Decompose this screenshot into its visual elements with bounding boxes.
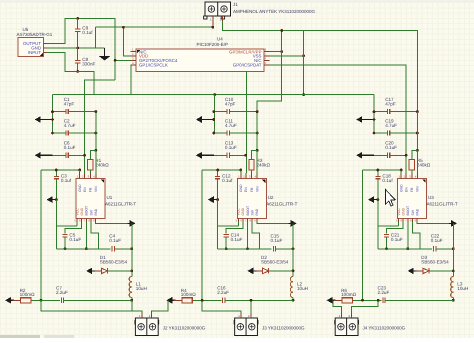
node out off-page	[5, 297, 14, 304]
wire	[92, 270, 101, 272]
connector J4	[335, 318, 406, 336]
J2 pin 1	[141, 314, 143, 318]
junction	[452, 270, 455, 273]
wire	[387, 222, 404, 234]
U3 bottom pin 9	[416, 219, 418, 222]
wire	[77, 63, 79, 71]
wire	[95, 150, 97, 173]
U2 bottom pin 6	[242, 219, 244, 222]
node gnd off-page	[356, 152, 374, 159]
junction	[55, 169, 58, 172]
U4 pin 6	[264, 59, 269, 61]
junction	[361, 299, 364, 302]
junction	[212, 110, 215, 113]
capacitor C3	[54, 173, 72, 183]
wire	[229, 132, 257, 134]
wire	[213, 119, 215, 121]
junction	[114, 59, 117, 62]
svg-text:VCC: VCC	[397, 208, 401, 216]
wire	[85, 80, 116, 173]
svg-text:10uH: 10uH	[136, 286, 147, 291]
wire	[52, 95, 54, 133]
capacitor C2	[64, 118, 76, 135]
junction	[55, 198, 58, 201]
wire	[373, 95, 375, 133]
junction	[373, 118, 376, 121]
wire	[77, 48, 79, 61]
wire	[256, 150, 258, 173]
wire	[53, 132, 67, 134]
U2 bottom pin 5	[237, 219, 239, 222]
node gnd off-page	[35, 116, 53, 123]
inductor L2	[290, 277, 308, 298]
svg-text:100mΩ: 100mΩ	[341, 292, 356, 297]
wire	[374, 132, 388, 134]
wire	[363, 169, 402, 171]
wire	[214, 154, 227, 156]
J2 pin 2	[151, 314, 153, 318]
U1 bottom pin 6	[81, 219, 83, 222]
svg-text:4.7uF: 4.7uF	[64, 123, 76, 128]
diode D1	[100, 255, 128, 274]
capacitor C16	[217, 286, 229, 303]
J1 pin 1	[212, 16, 214, 27]
wire	[64, 237, 66, 249]
wire	[130, 65, 133, 95]
svg-text:100mΩ: 100mΩ	[20, 292, 35, 297]
capacitor C23	[378, 286, 390, 303]
wire	[47, 47, 105, 49]
wire	[192, 299, 221, 301]
wire	[214, 95, 216, 133]
junction	[256, 110, 259, 113]
wire	[257, 31, 282, 112]
svg-text:VIN: VIN	[255, 186, 259, 192]
svg-text:0.1uF: 0.1uF	[69, 237, 81, 242]
node gnd off-page	[208, 196, 217, 203]
wire	[64, 299, 132, 301]
svg-text:0.1uf: 0.1uf	[82, 30, 93, 35]
U2 top pin 1	[240, 173, 242, 178]
wire	[333, 300, 342, 314]
wire	[13, 299, 21, 301]
wire	[353, 299, 382, 301]
U1 top pin 4	[95, 173, 97, 178]
svg-text:GP1/ICSPCLK: GP1/ICSPCLK	[139, 63, 168, 68]
wire	[55, 170, 57, 176]
node SW off-page	[128, 220, 136, 227]
capacitor C18	[375, 173, 393, 183]
wire	[174, 299, 182, 301]
svg-text:4.7uF: 4.7uF	[385, 123, 397, 128]
capacitor C12	[215, 173, 233, 183]
U3 top pin 2	[405, 173, 407, 178]
junction	[76, 17, 79, 20]
junction	[405, 154, 408, 157]
wire	[107, 270, 131, 272]
junction	[377, 169, 380, 172]
junction	[212, 132, 215, 135]
U4 pin 8	[264, 51, 269, 53]
junction	[239, 169, 242, 172]
junction	[292, 270, 295, 273]
svg-text:GND: GND	[399, 184, 403, 192]
U4 pin 2	[131, 55, 136, 57]
wire	[94, 27, 96, 48]
wire	[292, 223, 294, 276]
wire	[131, 223, 133, 276]
wire	[414, 270, 423, 272]
wire	[217, 179, 219, 200]
svg-text:330nF: 330nF	[82, 62, 95, 67]
svg-text:A6211GLJTR-T: A6211GLJTR-T	[105, 201, 136, 206]
wire	[41, 169, 80, 171]
svg-text:SW: SW	[411, 209, 415, 215]
wire	[40, 170, 42, 300]
wire	[229, 111, 257, 113]
wire	[76, 222, 78, 227]
regulator U5	[17, 27, 53, 57]
wire	[270, 55, 304, 57]
resistor R5	[409, 158, 431, 170]
svg-text:2.2uF: 2.2uF	[56, 290, 68, 295]
junction	[361, 299, 364, 302]
junction	[452, 247, 455, 250]
U3 bottom pin 7	[407, 219, 409, 222]
LED driver U1	[75, 179, 136, 219]
wire	[77, 18, 79, 29]
wire	[225, 299, 293, 301]
LED driver U2	[237, 179, 298, 219]
junction	[302, 93, 305, 96]
wire	[79, 170, 81, 173]
wire	[390, 111, 418, 113]
junction	[292, 299, 295, 302]
junction	[400, 169, 403, 172]
svg-text:BOOT: BOOT	[406, 206, 410, 216]
junction	[250, 299, 253, 302]
U2 bottom pin 8	[251, 219, 253, 222]
wire	[417, 222, 453, 224]
junction	[212, 118, 215, 121]
U4 pin 5	[264, 64, 269, 66]
wire	[377, 179, 379, 200]
junction	[416, 132, 419, 135]
wire	[131, 298, 133, 301]
capacitor C17	[385, 97, 396, 114]
J3 pin 1	[240, 314, 242, 318]
node gnd off-page	[368, 196, 377, 203]
wire	[223, 22, 418, 112]
svg-text:SB560-E3/54: SB560-E3/54	[421, 259, 449, 264]
wire	[416, 112, 418, 151]
junction	[373, 132, 376, 135]
junction	[244, 154, 247, 157]
svg-text:A6211GLJTR-T: A6211GLJTR-T	[266, 201, 297, 206]
wire	[202, 300, 241, 314]
svg-text:J4 YK31102000000G: J4 YK31102000000G	[363, 325, 406, 330]
wire	[390, 154, 406, 156]
wire	[411, 170, 413, 173]
junction	[246, 247, 249, 250]
wire	[374, 154, 387, 156]
wire	[226, 222, 243, 234]
wire	[123, 27, 130, 56]
svg-text:GND: GND	[402, 207, 406, 215]
wire	[269, 270, 293, 272]
junction	[302, 54, 305, 57]
junction	[76, 70, 79, 73]
wire	[386, 237, 388, 249]
U5 pin OUTPUT	[44, 43, 47, 45]
svg-text:U2: U2	[268, 195, 274, 200]
junction	[130, 247, 133, 250]
svg-text:10uH: 10uH	[297, 286, 308, 291]
wire	[41, 300, 142, 314]
svg-text:0.1uf: 0.1uf	[61, 178, 72, 183]
junction	[406, 247, 409, 250]
wire	[398, 222, 400, 227]
wire	[413, 222, 420, 249]
svg-text:2.2uF: 2.2uF	[217, 290, 229, 295]
wire	[55, 200, 57, 249]
wire	[55, 179, 57, 200]
wire	[251, 170, 253, 173]
wire	[303, 31, 305, 95]
svg-text:10uH: 10uH	[457, 286, 468, 291]
U3 bottom pin 8	[412, 219, 414, 222]
node gnd off-page	[196, 152, 214, 159]
junction	[51, 110, 54, 113]
capacitor C22	[431, 234, 443, 252]
svg-text:SW: SW	[251, 209, 255, 215]
wire	[378, 225, 399, 227]
U2 bottom pin 9	[256, 219, 258, 222]
svg-text:AMPHENOL ANYTEK YK31102000000G: AMPHENOL ANYTEK YK31102000000G	[233, 9, 315, 14]
wire	[362, 170, 364, 300]
capacitor C15	[271, 234, 283, 252]
inductor L1	[129, 277, 147, 298]
U3 bottom pin 6	[402, 219, 404, 222]
wire	[56, 248, 110, 250]
capacitor C8	[75, 57, 95, 67]
U3 top pin 3	[411, 173, 413, 178]
svg-text:0.1uF: 0.1uF	[225, 145, 237, 150]
svg-text:240kΩ: 240kΩ	[95, 162, 109, 167]
svg-text:240kΩ: 240kΩ	[257, 162, 271, 167]
capacitor C10	[225, 97, 236, 114]
junction	[85, 247, 88, 250]
resistor R4	[181, 288, 196, 303]
wire	[352, 300, 379, 314]
svg-text:GND: GND	[241, 207, 245, 215]
wire	[53, 94, 375, 96]
wire	[131, 300, 133, 311]
svg-text:J1: J1	[233, 2, 238, 7]
diode D2	[261, 255, 289, 274]
wire	[270, 65, 407, 173]
wire	[252, 222, 259, 249]
U5 pin GND	[44, 47, 47, 49]
junction	[280, 29, 283, 32]
node gnd off-page	[47, 196, 56, 203]
node SW off-page	[449, 220, 457, 227]
wire	[334, 299, 342, 301]
junction	[452, 299, 455, 302]
junction	[201, 299, 204, 302]
wire	[56, 225, 77, 227]
wire	[225, 237, 227, 249]
junction	[122, 26, 125, 29]
junction	[216, 169, 219, 172]
wire	[257, 222, 293, 224]
capacitor C14	[224, 233, 243, 243]
junction	[95, 110, 98, 113]
wire	[253, 270, 262, 272]
wire	[390, 132, 418, 134]
U4 pin 3	[131, 59, 136, 61]
svg-text:AS7305ADTR-G1: AS7305ADTR-G1	[17, 32, 53, 37]
capacitor C9	[75, 26, 93, 36]
node gnd off-page	[247, 268, 256, 275]
svg-text:4.7uF: 4.7uF	[225, 123, 237, 128]
svg-text:PAD: PAD	[94, 208, 98, 215]
junction	[201, 299, 204, 302]
junction	[256, 132, 259, 135]
wire	[77, 31, 79, 47]
LED driver U3	[397, 179, 458, 219]
U3 top pin 1	[400, 173, 402, 178]
junction	[256, 110, 259, 113]
wire	[53, 154, 66, 156]
wire	[214, 111, 228, 113]
U2 top pin 2	[245, 173, 247, 178]
capacitor C11	[225, 118, 237, 135]
svg-text:FB: FB	[410, 187, 414, 192]
svg-text:INPUT: INPUT	[28, 50, 41, 55]
U3 bottom pin 5	[398, 219, 400, 222]
svg-text:U3: U3	[428, 195, 434, 200]
svg-text:0.1uf: 0.1uf	[222, 178, 233, 183]
svg-text:VIN: VIN	[416, 186, 420, 192]
svg-text:47pF: 47pF	[64, 102, 75, 107]
wire	[377, 170, 379, 176]
svg-text:SB560-E3/54: SB560-E3/54	[100, 259, 128, 264]
wire	[91, 222, 98, 249]
wire	[217, 170, 219, 176]
wire	[90, 150, 96, 159]
junction	[292, 247, 295, 250]
svg-text:0.1uF: 0.1uF	[391, 237, 403, 242]
wire	[95, 112, 97, 151]
U4 pin 7	[264, 55, 269, 57]
connector J1	[204, 2, 316, 19]
J4 pin 2	[351, 314, 353, 318]
U1 bottom pin 9	[95, 219, 97, 222]
svg-text:VIN: VIN	[94, 186, 98, 192]
junction	[377, 198, 380, 201]
svg-text:0.1uF: 0.1uF	[271, 238, 283, 243]
svg-text:0.1uF: 0.1uF	[385, 145, 397, 150]
wire	[385, 299, 453, 301]
wire	[429, 270, 453, 272]
wire	[68, 132, 96, 134]
capacitor C1	[64, 97, 75, 114]
svg-text:A6211GLJTR-T: A6211GLJTR-T	[427, 201, 458, 206]
diode D3	[421, 255, 449, 274]
svg-text:SB560-E3/54: SB560-E3/54	[261, 259, 289, 264]
node gnd off-page	[408, 268, 417, 275]
svg-text:47pF: 47pF	[225, 102, 236, 107]
capacitor C7	[56, 286, 68, 303]
U1 bottom pin 8	[90, 219, 92, 222]
resistor R6	[341, 288, 356, 303]
wire	[270, 51, 282, 53]
junction	[95, 132, 98, 135]
wire	[152, 300, 168, 314]
U2 bottom pin 7	[247, 219, 249, 222]
svg-text:PAD: PAD	[255, 208, 259, 215]
svg-text:BOOT: BOOT	[246, 206, 250, 216]
node out off-page	[166, 297, 175, 304]
node out off-page	[327, 297, 336, 304]
capacitor C4	[109, 234, 121, 252]
wire	[96, 222, 132, 224]
wire	[47, 18, 116, 79]
node SW off-page	[289, 220, 297, 227]
J4 pin 1	[341, 314, 343, 318]
connector J3	[234, 318, 305, 336]
wire	[114, 248, 131, 250]
wire	[85, 222, 87, 249]
junction	[78, 169, 81, 172]
svg-text:0.1uf: 0.1uf	[382, 178, 393, 183]
wire	[202, 169, 241, 171]
J3 pin 2	[250, 314, 252, 318]
inductor L3	[451, 277, 469, 298]
svg-text:BOOT: BOOT	[85, 206, 89, 216]
U1 top pin 3	[89, 173, 91, 178]
U1 top pin 2	[84, 173, 86, 178]
capacitor C6	[64, 141, 76, 158]
svg-text:J2 YK31102000000G: J2 YK31102000000G	[163, 325, 206, 330]
junction	[40, 299, 43, 302]
wire	[218, 225, 239, 227]
node gnd off-page	[35, 152, 53, 159]
wire	[68, 154, 84, 156]
svg-text:240kΩ: 240kΩ	[417, 162, 431, 167]
svg-text:VCC: VCC	[237, 208, 241, 216]
wire	[214, 132, 228, 134]
junction	[416, 110, 419, 113]
U3 top pin 4	[416, 173, 418, 178]
capacitor C20	[385, 141, 397, 158]
svg-text:47pF: 47pF	[385, 102, 396, 107]
wire	[237, 222, 239, 227]
wire	[115, 59, 131, 61]
wire	[53, 111, 67, 113]
resistor R1	[88, 158, 110, 170]
svg-text:U1: U1	[107, 195, 113, 200]
junction	[95, 149, 98, 152]
svg-text:EN: EN	[404, 187, 408, 192]
wire	[201, 170, 203, 300]
junction	[377, 299, 380, 302]
wire	[377, 200, 379, 249]
wire	[292, 298, 294, 301]
U5 pin INPUT	[44, 51, 47, 53]
wire	[47, 52, 95, 94]
